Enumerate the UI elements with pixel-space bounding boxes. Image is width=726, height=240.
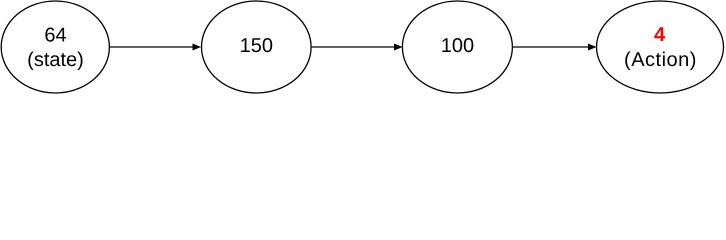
svg-text:100: 100	[441, 35, 474, 57]
svg-text:(Action): (Action)	[624, 49, 697, 71]
svg-text:64: 64	[44, 25, 66, 47]
svg-text:4: 4	[654, 24, 666, 46]
svg-text:150: 150	[240, 35, 273, 57]
svg-text:(state): (state)	[27, 49, 84, 71]
